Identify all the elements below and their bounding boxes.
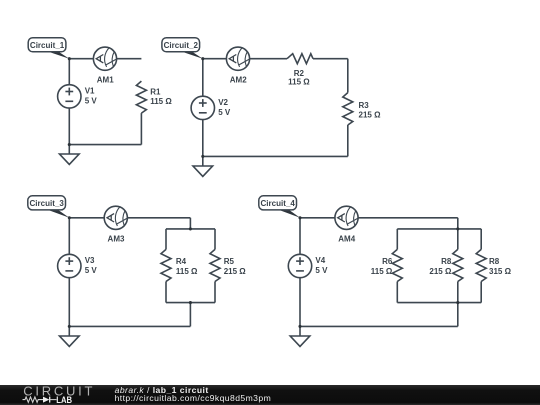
wire R1 bottom [140, 113, 142, 145]
svg-text:R8: R8 [441, 257, 452, 266]
svg-text:215 Ω: 215 Ω [224, 267, 247, 276]
wire bottom rail [397, 302, 481, 304]
resistor R5 215 Ohm [210, 249, 246, 281]
wire corner down [189, 218, 191, 229]
svg-text:5 V: 5 V [85, 266, 98, 275]
svg-text:5 V: 5 V [218, 108, 231, 117]
node circuit3 bottom node [68, 325, 71, 328]
wire bottom rail [166, 302, 215, 304]
wire top rail [397, 228, 481, 230]
node circuit4 bottom node [298, 325, 301, 328]
wire corner to R3 [347, 59, 349, 93]
wire V4 branch [299, 218, 301, 336]
svg-text:R8: R8 [489, 257, 500, 266]
svg-text:Circuit_2: Circuit_2 [164, 41, 199, 50]
wire bottom [69, 325, 190, 327]
wire node to R2 [203, 58, 287, 60]
ground [290, 336, 310, 346]
svg-text:V1: V1 [85, 87, 95, 96]
wire bottom [300, 325, 458, 327]
logo resistor squiggle [23, 397, 44, 402]
svg-text:115 Ω: 115 Ω [176, 267, 198, 276]
svg-text:5 V: 5 V [85, 96, 98, 105]
svg-text:AM2: AM2 [230, 75, 247, 84]
ground [60, 336, 80, 346]
node label Circuit_2 [162, 38, 203, 59]
svg-text:R4: R4 [176, 257, 187, 266]
node circuit2 top node [201, 57, 204, 60]
voltage source V3 5 V [58, 254, 98, 277]
node circuit3 rail bottom node [189, 301, 192, 304]
svg-text:5 V: 5 V [315, 266, 328, 275]
node circuit1 bottom node [68, 143, 71, 146]
node circuit1 top node [68, 57, 71, 60]
ground [193, 166, 213, 176]
ammeter AM4 [335, 206, 358, 243]
svg-text:315 Ω: 315 Ω [489, 267, 512, 276]
voltage source V2 5 V [191, 96, 231, 119]
resistor R6 115 Ohm [371, 249, 403, 281]
wire R6 bottom lead [396, 282, 398, 303]
svg-text:R3: R3 [359, 101, 370, 110]
node circuit3 top node [68, 216, 71, 219]
wire R5 top lead [214, 229, 216, 250]
node circuit4 rail top node [456, 227, 459, 230]
svg-text:215 Ω: 215 Ω [429, 267, 452, 276]
svg-text:Circuit_1: Circuit_1 [30, 41, 65, 50]
svg-text:R1: R1 [150, 88, 161, 97]
svg-text:115 Ω: 115 Ω [371, 267, 393, 276]
resistor R2 115 Ohm [287, 54, 313, 87]
svg-text:Circuit_4: Circuit_4 [261, 199, 296, 208]
wire top rail [166, 228, 215, 230]
node circuit3 rail top node [189, 227, 192, 230]
wire bottom [203, 155, 348, 157]
node circuit4 rail bottom node [456, 301, 459, 304]
ground [60, 154, 80, 164]
wire R6 top lead [396, 229, 398, 250]
wire corner down [457, 218, 459, 229]
resistor R3 215 Ohm [343, 93, 381, 125]
svg-text:V3: V3 [85, 256, 95, 265]
wire R4 bottom lead [165, 282, 167, 303]
svg-text:V2: V2 [218, 98, 228, 107]
ammeter AM2 [226, 47, 249, 84]
svg-text:215 Ω: 215 Ω [359, 111, 382, 120]
ammeter AM3 [104, 206, 127, 243]
svg-text:V4: V4 [315, 256, 325, 265]
wire R8a top lead [457, 229, 459, 250]
wire V3 branch [68, 218, 70, 336]
wire node to corner [300, 217, 458, 219]
svg-text:http://circuitlab.com/cc9kqu8d: http://circuitlab.com/cc9kqu8d5m3pm [115, 393, 272, 403]
wire R2 to corner [313, 58, 348, 60]
svg-text:R5: R5 [224, 257, 235, 266]
svg-text:Circuit_3: Circuit_3 [30, 199, 65, 208]
wire R8b bottom lead [480, 282, 482, 303]
wire R5 bottom lead [214, 282, 216, 303]
ammeter AM1 [93, 47, 116, 84]
wire rail to bottom [457, 303, 459, 327]
node label Circuit_3 [28, 196, 70, 218]
svg-text:R6: R6 [382, 257, 393, 266]
wire R4 top lead [165, 229, 167, 250]
svg-text:AM3: AM3 [108, 235, 125, 244]
wire R8b top lead [480, 229, 482, 250]
svg-text:115 Ω: 115 Ω [150, 97, 172, 106]
wire R3 bottom [347, 125, 349, 156]
wire bottom [69, 144, 141, 146]
svg-text:LAB: LAB [56, 395, 72, 405]
logo wire [50, 399, 57, 401]
node label Circuit_4 [259, 196, 300, 218]
node circuit4 top node [298, 216, 301, 219]
wire node to corner [69, 217, 190, 219]
wire node through V2 to ground [202, 59, 204, 166]
resistor R8 215 Ohm [429, 249, 462, 281]
wire rail to bottom [189, 303, 191, 327]
resistor R8 315 Ohm [476, 249, 511, 281]
voltage source V4 5 V [288, 254, 328, 277]
wire R8a bottom lead [457, 282, 459, 303]
svg-text:AM4: AM4 [338, 235, 355, 244]
node circuit2 bottom node [201, 155, 204, 158]
svg-text:115 Ω: 115 Ω [288, 78, 310, 87]
footer bar [0, 385, 540, 405]
voltage source V1 5 V [58, 85, 98, 108]
wire node through V1 to ground [68, 59, 70, 154]
svg-text:AM1: AM1 [97, 75, 114, 84]
wire node to R1 top [69, 58, 141, 60]
logo diode [43, 397, 49, 403]
resistor R4 115 Ohm [161, 249, 198, 281]
CircuitLab logo CIRCUIT text [23, 384, 95, 399]
svg-text:R2: R2 [294, 69, 305, 78]
resistor R1 115 Ohm [136, 81, 172, 113]
node label Circuit_1 [28, 38, 69, 59]
